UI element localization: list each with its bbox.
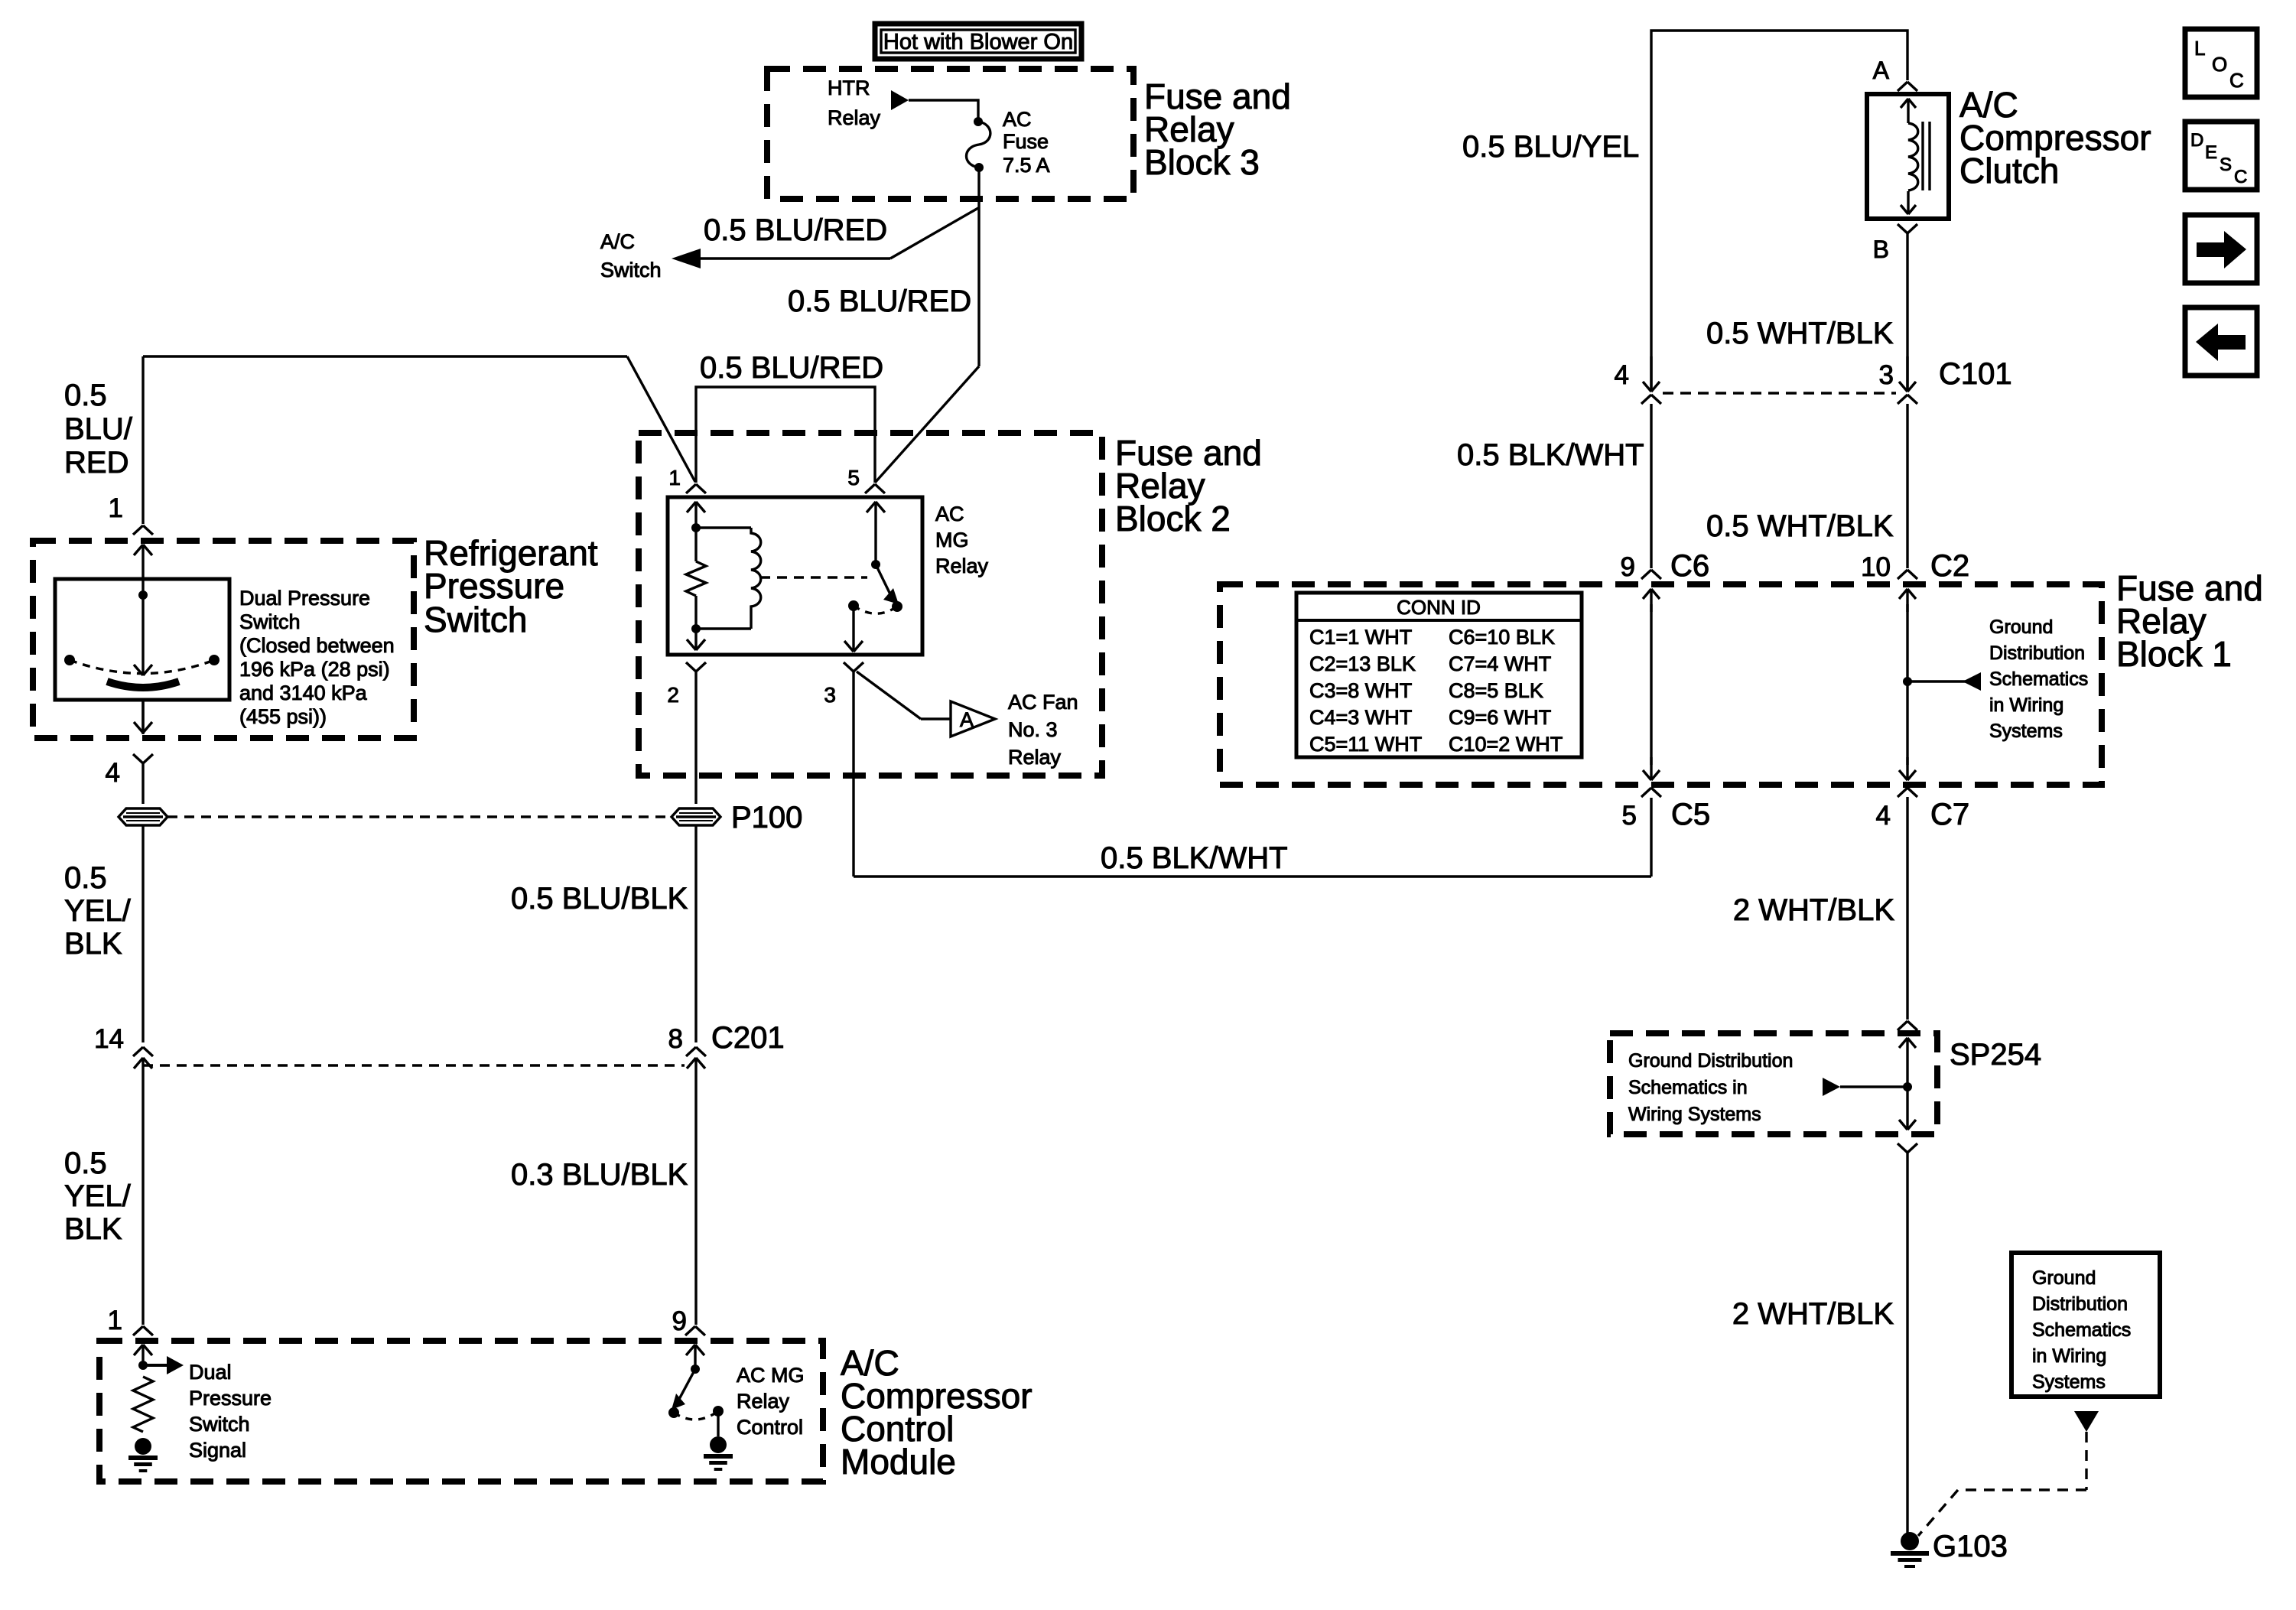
svg-text:1: 1 (668, 466, 681, 490)
svg-text:9: 9 (672, 1306, 687, 1336)
svg-text:C: C (2234, 167, 2247, 187)
svg-text:O: O (2212, 53, 2227, 76)
svg-text:YEL/: YEL/ (64, 894, 132, 928)
svg-text:BLU/: BLU/ (64, 412, 133, 446)
svg-text:0.5: 0.5 (64, 379, 107, 412)
svg-text:Hot with Blower On: Hot with Blower On (883, 30, 1073, 54)
svg-text:Ground: Ground (1989, 616, 2053, 638)
svg-text:Schematics: Schematics (2032, 1319, 2131, 1341)
svg-text:8: 8 (668, 1024, 683, 1054)
svg-text:G103: G103 (1933, 1530, 2008, 1563)
svg-text:and 3140 kPa: and 3140 kPa (239, 681, 368, 704)
svg-text:C5=11 WHT: C5=11 WHT (1309, 733, 1422, 756)
svg-text:0.5 BLU/RED: 0.5 BLU/RED (700, 351, 883, 385)
svg-text:2 WHT/BLK: 2 WHT/BLK (1733, 893, 1894, 927)
svg-text:1: 1 (109, 493, 123, 523)
svg-text:Schematics: Schematics (1989, 668, 2088, 690)
svg-text:Distribution: Distribution (2032, 1293, 2128, 1315)
svg-text:0.5 BLK/WHT: 0.5 BLK/WHT (1457, 438, 1644, 472)
svg-text:(Closed between: (Closed between (239, 634, 395, 657)
svg-text:2 WHT/BLK: 2 WHT/BLK (1732, 1297, 1894, 1331)
svg-text:4: 4 (106, 758, 120, 788)
svg-text:C: C (2229, 69, 2244, 92)
svg-text:0.5 BLU/RED: 0.5 BLU/RED (704, 213, 887, 247)
svg-text:3: 3 (1879, 360, 1894, 390)
svg-text:BLK: BLK (64, 1212, 122, 1246)
svg-text:C4=3 WHT: C4=3 WHT (1309, 706, 1412, 729)
svg-text:A: A (960, 708, 974, 731)
svg-text:Clutch: Clutch (1959, 151, 2059, 190)
svg-text:HTR: HTR (828, 76, 870, 99)
svg-text:1: 1 (108, 1306, 122, 1335)
svg-text:AC Fan: AC Fan (1008, 691, 1078, 714)
svg-text:5: 5 (847, 466, 860, 490)
svg-text:Fuse: Fuse (1003, 130, 1049, 153)
svg-text:in Wiring: in Wiring (2032, 1345, 2106, 1367)
svg-text:5: 5 (1622, 801, 1637, 831)
svg-text:C7=4 WHT: C7=4 WHT (1449, 652, 1551, 675)
svg-text:in Wiring: in Wiring (1989, 694, 2063, 716)
svg-text:2: 2 (667, 683, 679, 707)
svg-text:Module: Module (841, 1442, 956, 1482)
svg-text:(455 psi)): (455 psi)) (239, 705, 327, 728)
svg-text:0.5: 0.5 (64, 1147, 107, 1180)
svg-text:4: 4 (1876, 801, 1891, 831)
svg-text:9: 9 (1621, 552, 1635, 582)
svg-text:AC: AC (1003, 108, 1032, 131)
svg-text:Ground Distribution: Ground Distribution (1628, 1050, 1793, 1072)
svg-text:C10=2 WHT: C10=2 WHT (1449, 733, 1563, 756)
svg-text:Systems: Systems (2032, 1371, 2106, 1393)
svg-text:0.5 WHT/BLK: 0.5 WHT/BLK (1706, 509, 1894, 543)
svg-text:B: B (1873, 236, 1889, 263)
svg-text:Switch: Switch (424, 600, 527, 639)
svg-text:0.5 BLK/WHT: 0.5 BLK/WHT (1101, 841, 1288, 875)
svg-text:Distribution: Distribution (1989, 642, 2085, 664)
svg-text:A: A (1873, 57, 1890, 84)
svg-text:Wiring Systems: Wiring Systems (1628, 1104, 1761, 1125)
svg-text:Relay: Relay (828, 106, 881, 129)
svg-text:A/C: A/C (600, 230, 635, 253)
svg-text:YEL/: YEL/ (64, 1179, 132, 1213)
svg-text:No. 3: No. 3 (1008, 718, 1058, 741)
svg-text:Switch: Switch (239, 610, 301, 633)
svg-text:0.3 BLU/BLK: 0.3 BLU/BLK (511, 1158, 688, 1192)
svg-text:Schematics in: Schematics in (1628, 1077, 1748, 1098)
svg-text:Dual: Dual (189, 1361, 232, 1384)
svg-text:C5: C5 (1671, 798, 1710, 831)
svg-text:C9=6 WHT: C9=6 WHT (1449, 706, 1551, 729)
svg-text:AC MG: AC MG (737, 1364, 805, 1387)
svg-text:C1=1 WHT: C1=1 WHT (1309, 626, 1412, 649)
svg-text:C2: C2 (1930, 549, 1969, 583)
svg-text:3: 3 (824, 683, 836, 707)
svg-text:C101: C101 (1939, 357, 2012, 391)
svg-text:0.5 BLU/RED: 0.5 BLU/RED (788, 285, 971, 318)
svg-text:L: L (2194, 37, 2205, 60)
svg-text:D: D (2190, 130, 2203, 151)
svg-text:7.5 A: 7.5 A (1003, 154, 1050, 177)
svg-text:AC: AC (935, 503, 964, 525)
svg-text:Block 2: Block 2 (1115, 499, 1231, 538)
svg-text:C7: C7 (1930, 798, 1969, 831)
svg-text:Relay: Relay (935, 555, 989, 577)
svg-text:14: 14 (94, 1024, 124, 1054)
svg-text:Control: Control (737, 1416, 803, 1439)
svg-text:C201: C201 (711, 1021, 785, 1055)
svg-text:SP254: SP254 (1950, 1038, 2041, 1072)
svg-text:4: 4 (1615, 360, 1629, 390)
svg-text:C3=8 WHT: C3=8 WHT (1309, 679, 1412, 702)
svg-text:Dual Pressure: Dual Pressure (239, 587, 370, 610)
svg-text:MG: MG (935, 529, 969, 551)
svg-text:0.5 WHT/BLK: 0.5 WHT/BLK (1706, 317, 1894, 350)
svg-text:0.5 BLU/BLK: 0.5 BLU/BLK (511, 882, 688, 916)
svg-text:0.5: 0.5 (64, 861, 107, 895)
svg-text:Block 3: Block 3 (1144, 142, 1260, 182)
svg-text:Ground: Ground (2032, 1267, 2096, 1289)
svg-text:BLK: BLK (64, 927, 122, 961)
svg-text:Signal: Signal (189, 1439, 246, 1462)
svg-text:RED: RED (64, 446, 128, 480)
svg-text:CONN ID: CONN ID (1397, 596, 1481, 619)
svg-text:Switch: Switch (189, 1413, 250, 1436)
svg-text:C2=13 BLK: C2=13 BLK (1309, 652, 1416, 675)
svg-text:C6=10 BLK: C6=10 BLK (1449, 626, 1555, 649)
svg-text:Block 1: Block 1 (2116, 634, 2232, 674)
svg-text:Relay: Relay (737, 1390, 790, 1413)
svg-text:Relay: Relay (1008, 746, 1062, 769)
svg-text:Systems: Systems (1989, 720, 2063, 742)
svg-text:Pressure: Pressure (189, 1387, 272, 1410)
svg-text:C6: C6 (1670, 549, 1709, 583)
svg-text:0.5 BLU/YEL: 0.5 BLU/YEL (1462, 130, 1639, 164)
svg-text:C8=5 BLK: C8=5 BLK (1449, 679, 1543, 702)
svg-text:P100: P100 (731, 801, 802, 834)
svg-text:Switch: Switch (600, 259, 662, 281)
svg-text:10: 10 (1861, 552, 1891, 582)
svg-text:196 kPa (28 psi): 196 kPa (28 psi) (239, 658, 390, 681)
svg-text:E: E (2205, 142, 2217, 163)
svg-text:S: S (2220, 154, 2232, 175)
